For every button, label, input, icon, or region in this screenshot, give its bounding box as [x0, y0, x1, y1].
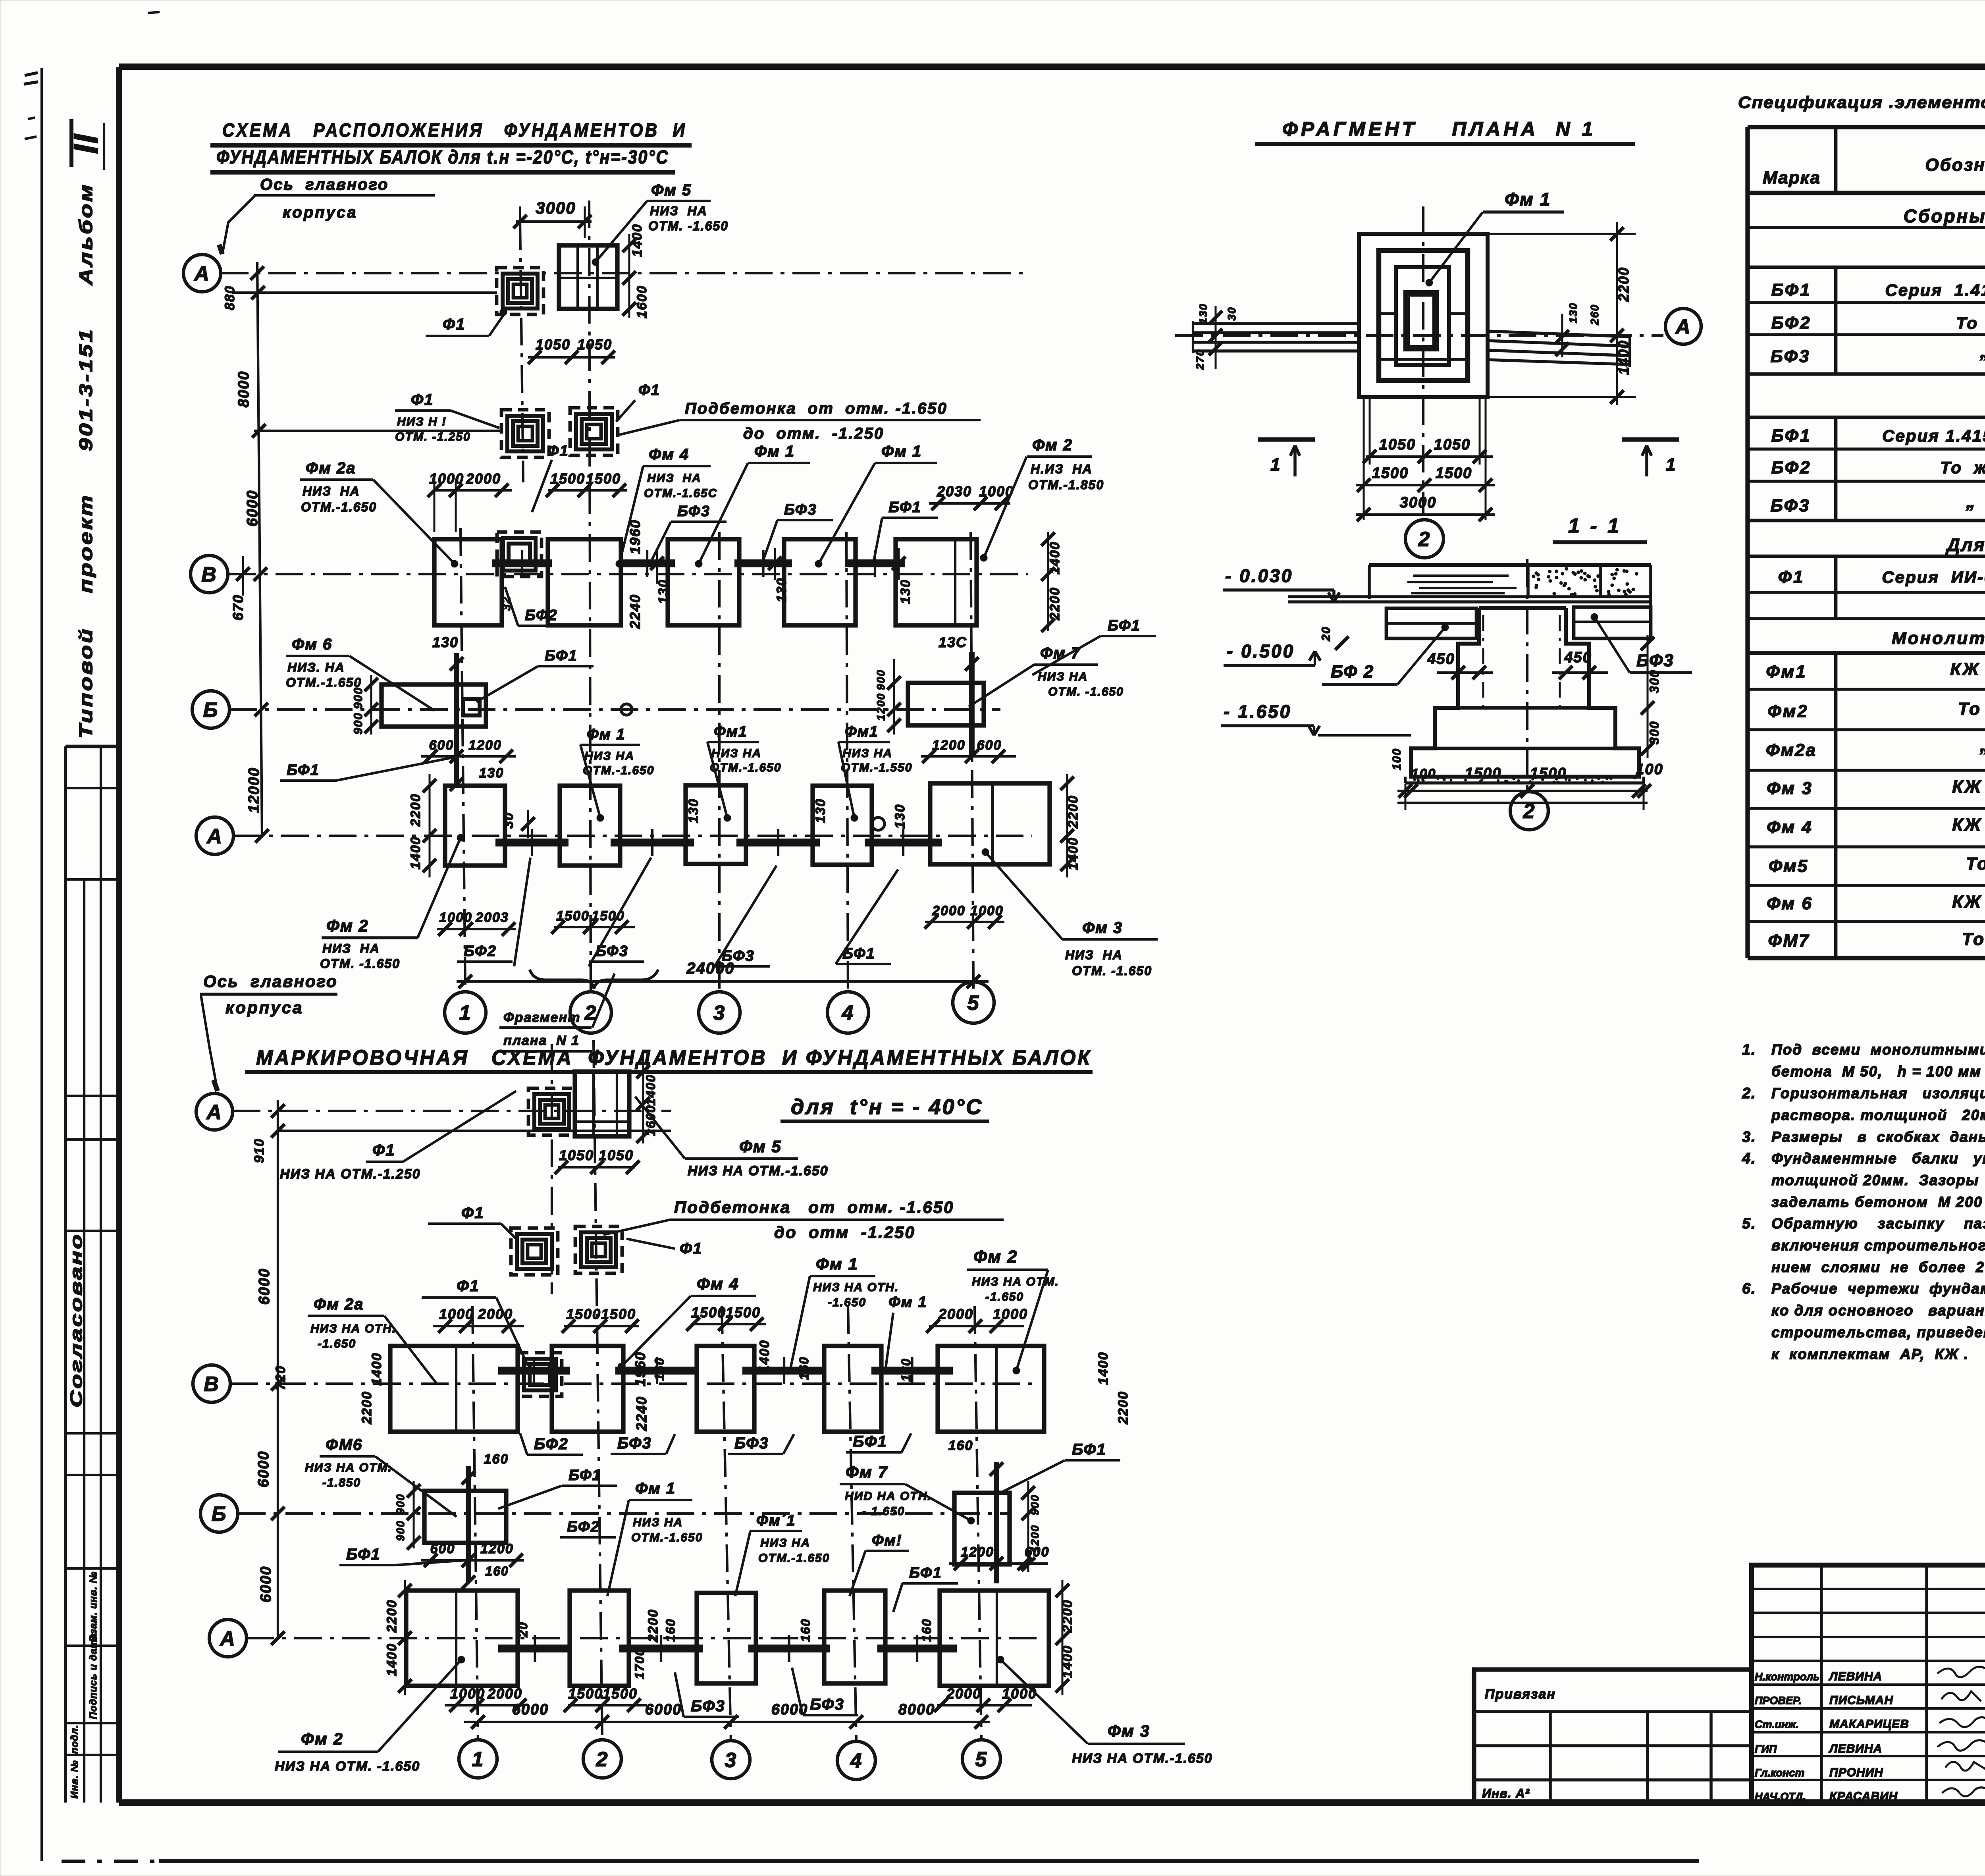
foundation Фм3 rect row A (upper): [930, 783, 1050, 864]
svg-text:Фм 2: Фм 2: [1032, 436, 1073, 454]
svg-text:Марка: Марка: [1763, 168, 1821, 187]
svg-text:1400: 1400: [1615, 340, 1632, 375]
svg-text:Фм2а: Фм2а: [1766, 740, 1817, 760]
svg-text:160: 160: [797, 1356, 811, 1380]
svg-text:ПРОНИН: ПРОНИН: [1829, 1766, 1883, 1779]
fragment center vertical axis: [1422, 206, 1424, 516]
svg-text:до отм. -1.250: до отм. -1.250: [743, 425, 884, 442]
svg-text:включения строительного мусор: включения строительного мусора и растите…: [1771, 1237, 1985, 1253]
svg-text:30: 30: [1226, 307, 1238, 320]
svg-text:160: 160: [919, 1618, 934, 1642]
label Фм6 (lower): [305, 1436, 457, 1517]
svg-text:Размеры в скобках даны дл: Размеры в скобках даны для t°н = - 20°C …: [1771, 1129, 1985, 1145]
foundation Фм5 rectangle (upper): [559, 245, 617, 309]
svg-text:БФ2: БФ2: [534, 1435, 569, 1453]
lower plan subtitle: для t н = -40°C: [781, 1095, 989, 1121]
axis row A2 circle: [196, 817, 233, 854]
column circle 4 (lower): [837, 1741, 875, 1780]
svg-text:Фм 6: Фм 6: [292, 636, 332, 653]
label Подбетонка (lower): [603, 1198, 1004, 1242]
svg-text:1500: 1500: [1436, 465, 1472, 482]
svg-text:НИЗ НА: НИЗ НА: [1065, 948, 1123, 962]
svg-text:Фм 1: Фм 1: [888, 1294, 927, 1311]
svg-text:Фм 1: Фм 1: [587, 726, 625, 743]
foundation Фм5 rect (lower): [575, 1072, 629, 1136]
svg-text:3: 3: [713, 1002, 726, 1025]
section label БФ2: [1322, 624, 1449, 684]
foundation Фм1 rect row B (lower) #2: [824, 1346, 881, 1432]
svg-text:160: 160: [484, 1452, 509, 1467]
svg-text:ОТМ.-1.650: ОТМ.-1.650: [758, 1552, 830, 1565]
svg-text:БФ3: БФ3: [1636, 651, 1674, 670]
svg-text:1400: 1400: [408, 836, 423, 870]
dims 1200 600 below Фм7 (upper): [921, 738, 1016, 763]
svg-text:670: 670: [230, 594, 246, 621]
column axis 5 line (lower): [975, 1306, 981, 1740]
svg-text:Серия ИИ-04-1 вып. 6: Серия ИИ-04-1 вып. 6: [1882, 568, 1985, 586]
axis row A2 lower circle: [209, 1620, 247, 1657]
labels БФ2 БФ3 БФ3 БФ1 row B (lower): [520, 1433, 911, 1455]
svg-text:То же: То же: [1956, 314, 1985, 332]
svg-text:БФ3: БФ3: [617, 1434, 652, 1452]
section bottom dims 100 1500 1500 100: [1390, 748, 1663, 810]
svg-text:ОТМ. -1.650: ОТМ. -1.650: [1072, 964, 1152, 978]
rotated dim 130 row B #2 (upper): [768, 548, 789, 602]
dim 160 Фм7 (lower): [948, 1438, 1003, 1476]
svg-text:2030: 2030: [937, 483, 972, 499]
svg-text:- 1.650: - 1.650: [1224, 701, 1291, 722]
axis row Б lower line: [238, 1512, 1008, 1515]
svg-text:То же: То же: [1940, 458, 1985, 477]
svg-text:НИЗ НА: НИЗ НА: [1038, 670, 1088, 683]
svg-text:130: 130: [432, 634, 459, 650]
svg-text:1500: 1500: [586, 470, 621, 487]
svg-text:1050: 1050: [1434, 436, 1471, 453]
svg-text:6000: 6000: [256, 1268, 273, 1305]
svg-text:1 - 1: 1 - 1: [1568, 515, 1621, 538]
svg-text:2240: 2240: [627, 594, 643, 629]
svg-text:2200: 2200: [1615, 267, 1632, 302]
svg-text:3000: 3000: [1400, 494, 1437, 511]
svg-text:Фм 1: Фм 1: [816, 1255, 858, 1273]
svg-text:Фм 4: Фм 4: [649, 446, 689, 463]
svg-text:Ось главного: Ось главного: [260, 176, 389, 193]
svg-text:1000: 1000: [993, 1306, 1028, 1322]
svg-text:Монолитные железобетонные: Монолитные железобетонные констр.укции: [1892, 629, 1985, 648]
beam БФ2 row A (upper): [495, 839, 569, 846]
svg-text:1000: 1000: [439, 1306, 474, 1322]
fragment label Фм1: [1426, 189, 1564, 286]
rotated dim 130 row B #3 (upper): [892, 548, 913, 604]
svg-text:НИЗ НА ОТМ.: НИЗ НА ОТМ.: [305, 1461, 392, 1474]
svg-text:Сборные железобетонные ко: Сборные железобетонные конструкции: [1904, 206, 1985, 226]
label Фм2 row A (lower): [275, 1656, 465, 1774]
svg-text:300: 300: [1647, 669, 1661, 693]
axis row A upper parallel line: [232, 291, 497, 294]
svg-text:2200: 2200: [1116, 1391, 1131, 1425]
label Фм2 (upper): [980, 436, 1104, 561]
svg-text:160: 160: [652, 1357, 667, 1380]
axis row A2 line: [233, 835, 1032, 837]
foundation Фм4 rect row B (upper): [548, 539, 621, 625]
foundation Фм1 rect row B (upper) #1: [668, 539, 739, 625]
Фм7 side dims 1200 900 (lower): [1021, 1481, 1041, 1572]
svg-text:до отм -1.250: до отм -1.250: [774, 1223, 915, 1242]
label Фм5 (lower): [635, 1097, 829, 1178]
foundation Ф1 square on axis1 row B (upper): [497, 532, 542, 576]
row A dims 2000 1000 (upper): [925, 903, 1004, 929]
label Фм1 row B #2 (upper): [815, 443, 937, 567]
svg-text:2000: 2000: [938, 1306, 973, 1322]
rotated dims near axis2 (upper row B): [500, 519, 671, 629]
svg-text:БФ1: БФ1: [1072, 1441, 1106, 1458]
svg-text:1500: 1500: [601, 1306, 636, 1322]
rotated dims row B (lower): [359, 1340, 1131, 1431]
svg-text:30: 30: [501, 812, 516, 829]
svg-text:1: 1: [459, 1002, 472, 1025]
row A right dim line (lower): [1056, 1580, 1069, 1695]
fragment right beam: [1488, 331, 1630, 367]
rotated dims row A (lower): [384, 1599, 1075, 1679]
svg-text:2: 2: [1418, 528, 1431, 551]
svg-text:- 1.650: - 1.650: [862, 1505, 905, 1518]
svg-text:Фундаментные балки укладыв: Фундаментные балки укладывать на цементн…: [1771, 1150, 1985, 1166]
beam БФ3 row B #2 (lower): [742, 1367, 826, 1375]
axis row A upper line: [221, 272, 1028, 274]
svg-text:900: 900: [1029, 1494, 1041, 1515]
svg-text:2: 2: [1523, 800, 1536, 823]
svg-text:Ф1: Ф1: [547, 443, 569, 459]
svg-text:5: 5: [975, 1748, 988, 1771]
svg-text:В: В: [204, 1373, 220, 1396]
svg-text:1500: 1500: [556, 908, 590, 924]
label Ф1 mid-right (lower): [626, 1239, 702, 1257]
svg-text:4: 4: [850, 1750, 863, 1773]
svg-text:1500: 1500: [603, 1685, 638, 1702]
foundation rect row A axis3 (upper): [686, 785, 746, 864]
label Фм2 row A (upper): [320, 834, 464, 971]
section dim 450 left: [1427, 651, 1493, 679]
section floor hatch lines: [1407, 576, 1517, 593]
axis row Б line: [229, 708, 1000, 711]
section title 1-1: [1553, 515, 1647, 542]
svg-text:3: 3: [725, 1749, 737, 1772]
svg-text:ФРАГМЕНТ ПЛАНА N 1: ФРАГМЕНТ ПЛАНА N 1: [1282, 118, 1596, 140]
svg-text:6000: 6000: [255, 1451, 272, 1488]
section level mark -0.500: [1224, 641, 1320, 665]
foundation Ф1 square top (lower): [528, 1088, 575, 1135]
spec row БФ2 (-40): [1771, 458, 1985, 477]
svg-text:То же: То же: [1966, 854, 1985, 873]
sidebar stamp table: [66, 746, 119, 1803]
label БФ1 right row Б (upper): [1032, 617, 1156, 675]
svg-text:Фм 1: Фм 1: [1505, 189, 1551, 210]
lower rowB dims 1500 1500 #1: [562, 1306, 639, 1333]
svg-text:2003: 2003: [475, 910, 509, 925]
svg-text:ОТМ.-1.650: ОТМ.-1.650: [286, 675, 362, 690]
svg-text:Фм 5: Фм 5: [651, 181, 692, 199]
svg-text:8000: 8000: [235, 371, 252, 408]
axis row B line: [228, 573, 1028, 575]
svg-text:БФ3: БФ3: [1771, 496, 1811, 515]
label Фм1 row Б #2 (lower): [735, 1512, 830, 1596]
svg-text:32: 32: [500, 596, 513, 611]
section beam БФ2 cross: [1386, 608, 1476, 638]
svg-text:2000: 2000: [946, 1685, 981, 1702]
label: Ось главного корпуса (upper): [219, 176, 435, 254]
upper plan title line 2: [210, 147, 675, 172]
section right dim chain 300 300: [1641, 635, 1661, 758]
svg-text:- 0.500: - 0.500: [1227, 641, 1295, 661]
parallel line below axis A lower: [278, 1130, 671, 1132]
svg-text:1: 1: [1270, 455, 1281, 474]
label БФ3 row B #2 (upper): [762, 501, 833, 563]
svg-text:НИЗ НА: НИЗ НА: [647, 472, 701, 485]
Фм5 right dim chain (upper): [622, 224, 649, 318]
label БФ1 row Б (lower): [498, 1467, 617, 1509]
svg-text:ФМ7: ФМ7: [1768, 931, 1810, 951]
section center axis: [1526, 559, 1528, 792]
label Подбетонка (upper): [619, 400, 981, 442]
fragment inner detail lines: [1379, 314, 1468, 359]
svg-text:-1.650: -1.650: [318, 1337, 356, 1350]
axis row B lower line: [230, 1382, 1032, 1385]
sidebar outer edge line: [40, 68, 43, 1861]
svg-text:5.: 5.: [1742, 1215, 1756, 1232]
svg-text:Ось главного: Ось главного: [203, 972, 338, 991]
foundation Фм2 rect row A (upper): [445, 786, 505, 866]
svg-text:1200: 1200: [961, 1544, 994, 1560]
spec row Фм5: [1769, 852, 1985, 876]
foundation rect row A axis2 (lower): [570, 1591, 629, 1686]
svg-text:-1.650: -1.650: [828, 1296, 866, 1309]
section slab underside lines: [1288, 597, 1651, 602]
svg-text:КЖ - 5: КЖ - 5: [1950, 659, 1985, 679]
label Фм1 trio #3 (upper): [838, 723, 912, 821]
dims 600 1200 below Фм6 (upper): [421, 738, 516, 791]
svg-text:ОТМ. -1.650: ОТМ. -1.650: [1048, 685, 1124, 698]
svg-text:НИЗ НА: НИЗ НА: [760, 1537, 810, 1550]
svg-text:600: 600: [429, 738, 454, 753]
foundation Фм7 rect row Б (lower): [954, 1462, 1010, 1583]
spec row Фм3: [1767, 775, 1985, 798]
svg-text:1200: 1200: [932, 738, 966, 753]
row A dims 1500 1500 (upper): [551, 908, 635, 934]
svg-text:Спецификация .элементов к ма: Спецификация .элементов к маркировочным …: [1738, 93, 1985, 112]
title block signature scribbles: [1937, 1667, 1985, 1796]
beam БФ2 row B (upper): [492, 559, 552, 567]
svg-text:КЖ - 7: КЖ - 7: [1952, 815, 1985, 835]
beam БФ3 row A #1 (lower): [619, 1645, 703, 1652]
svg-text:БФ3: БФ3: [810, 1696, 844, 1713]
row A left dim line (lower): [398, 1580, 412, 1695]
label Ф1 mid-left (lower): [428, 1204, 516, 1239]
svg-text:ОТМ.-1.650: ОТМ.-1.650: [710, 761, 781, 774]
svg-text:ЛЕВИНА: ЛЕВИНА: [1829, 1742, 1882, 1755]
beam БФ2 row B (lower): [498, 1367, 570, 1375]
axis row A lower circle: [196, 1093, 233, 1130]
svg-text:13С: 13С: [939, 634, 967, 650]
svg-text:ФУНДАМЕНТНЫХ БАЛОК для t.н =-2: ФУНДАМЕНТНЫХ БАЛОК для t.н =-20°C, t°н=-…: [216, 147, 669, 168]
svg-text:БФ1: БФ1: [909, 1565, 942, 1581]
label Фм1 trio #2 (upper): [707, 723, 781, 821]
svg-text:НИЗ НА: НИЗ НА: [633, 1516, 683, 1529]
section floor slab top: [1369, 565, 1651, 639]
svg-text:КЖ - 6: КЖ - 6: [1952, 777, 1985, 796]
svg-text:130: 130: [774, 578, 789, 603]
svg-text:2000: 2000: [478, 1306, 513, 1322]
svg-text:2: 2: [584, 1002, 597, 1025]
beam БФ2 row A (lower): [498, 1645, 572, 1652]
svg-text:1700: 1700: [632, 1648, 647, 1679]
label Фрагмент плана N1 (upper): [499, 974, 615, 1051]
spec table header text: [1763, 135, 1985, 189]
svg-text:Фм 6: Фм 6: [1767, 894, 1813, 913]
svg-text:600: 600: [977, 738, 1002, 753]
fragment axis A circle: [1665, 308, 1701, 344]
svg-text:ПРОВЕР.: ПРОВЕР.: [1755, 1695, 1802, 1706]
fragment brace (upper): [530, 970, 658, 989]
beam БФ3 row A #2 (upper): [736, 839, 820, 846]
svg-text:Взам. инв. №: Взам. инв. №: [88, 1571, 99, 1642]
svg-text:Фм 2а: Фм 2а: [314, 1296, 364, 1313]
svg-text:1500: 1500: [1372, 465, 1409, 482]
label Фм4 (upper): [616, 446, 717, 567]
svg-text:Серия 1.415 -1 вып.1: Серия 1.415 -1 вып.1: [1885, 281, 1985, 299]
svg-text:12000: 12000: [246, 767, 262, 813]
svg-text:МАКАРИЦЕВ: МАКАРИЦЕВ: [1829, 1718, 1909, 1731]
svg-text:6.: 6.: [1742, 1280, 1756, 1297]
svg-text:БФ2: БФ2: [464, 943, 497, 960]
fragment dim 3000: [1356, 494, 1495, 521]
dims 1200 600 (lower row Б right): [949, 1544, 1049, 1570]
foundation rect row A axis2 (upper): [560, 786, 620, 866]
svg-text:Подбетонка от отм. -1.650: Подбетонка от отм. -1.650: [685, 400, 948, 417]
svg-text:к комплектам АР, КЖ .: к комплектам АР, КЖ .: [1771, 1346, 1969, 1362]
column circle 3 (lower): [712, 1741, 750, 1779]
svg-text:Н.ИЗ НА: Н.ИЗ НА: [1031, 462, 1093, 476]
row A dims below (lower): [445, 1685, 1037, 1712]
foundation Ф1 square row B (lower): [518, 1353, 562, 1396]
svg-text:НИЗ НА: НИЗ НА: [650, 204, 707, 218]
svg-text:СХЕМА РАСПОЛОЖЕНИЯ ФУНДАМЕ: СХЕМА РАСПОЛОЖЕНИЯ ФУНДАМЕНТОВ И: [222, 120, 687, 141]
label Фм4 (lower): [618, 1274, 756, 1370]
column axis 2 line (upper): [589, 201, 591, 992]
section level mark -0.030: [1223, 565, 1339, 602]
dim 1050 1050 (lower): [555, 1147, 640, 1174]
svg-text:БФ1: БФ1: [346, 1546, 381, 1563]
spec row Фм2а: [1766, 735, 1985, 760]
axis row Б circle: [192, 691, 229, 728]
svg-text:Фм 2: Фм 2: [301, 1729, 343, 1748]
beam БФ1 row A (lower): [877, 1645, 957, 1652]
svg-text:160: 160: [948, 1438, 973, 1453]
svg-text:3000: 3000: [536, 199, 576, 217]
row A dims 1000 2000 (upper): [437, 910, 516, 936]
svg-text:для t°н = - 40°C: для t°н = - 40°C: [791, 1095, 983, 1119]
sidebar corner scribble: [24, 73, 38, 139]
svg-text:БФ3: БФ3: [691, 1697, 725, 1715]
section beam БФ3 cross: [1574, 607, 1651, 638]
svg-text:600: 600: [430, 1541, 455, 1556]
beam БФ1 row A (upper): [865, 839, 942, 846]
foundation Фм7 rect row Б (upper): [908, 652, 984, 755]
lower rowB dims 1500 1500 #2: [686, 1304, 766, 1331]
svg-text:2200: 2200: [384, 1599, 399, 1633]
foundation Ф1 square b (upper mid): [570, 408, 618, 455]
foundation Фм6 rect row Б (lower): [424, 1466, 506, 1582]
Фм6 side dims 900 900 (lower): [394, 1481, 420, 1550]
svg-text:Инв. № подл.: Инв. № подл.: [69, 1725, 80, 1799]
svg-text:130: 130: [898, 579, 913, 604]
small circle marker row A (upper): [872, 817, 885, 830]
fragment column circle 2: [1405, 520, 1443, 558]
foundation rect row A axis3 (lower): [697, 1593, 756, 1683]
svg-text:1500: 1500: [568, 1685, 603, 1702]
svg-text:160: 160: [798, 1618, 813, 1642]
Фм6 left dims 900 900 (upper): [352, 675, 378, 735]
svg-text:БФ1: БФ1: [853, 1433, 887, 1450]
svg-text:А: А: [206, 1101, 222, 1124]
svg-text:450: 450: [1427, 651, 1455, 667]
svg-text:Ф1: Ф1: [1778, 567, 1805, 587]
title block signature texts: [1755, 1670, 1909, 1803]
column axis 4 line (upper): [846, 532, 848, 992]
svg-text:Горизонтальная изоляция ст: Горизонтальная изоляция стен выполняется…: [1771, 1085, 1985, 1101]
svg-text:900: 900: [352, 687, 365, 709]
axis row Б lower circle: [200, 1495, 238, 1532]
notes block: [1742, 1041, 1985, 1362]
svg-text:Фм´1: Фм´1: [756, 1512, 796, 1529]
foundation Фм2 rect row B (upper): [896, 539, 977, 625]
svg-text:- 0.030: - 0.030: [1225, 565, 1293, 586]
column axis 1 line (lower): [472, 1306, 478, 1740]
svg-text:1400: 1400: [1066, 837, 1081, 870]
vertical through top square (lower): [551, 1044, 553, 1294]
fragment foundation step rect: [1379, 251, 1468, 380]
svg-text:1400: 1400: [630, 224, 645, 257]
svg-text:6000: 6000: [258, 1566, 274, 1603]
foundation Ф1 square (axis A top): [497, 268, 543, 314]
fragment right dim chain 2200 1400: [1488, 222, 1636, 405]
svg-text:1600: 1600: [634, 285, 649, 318]
vertical line through top foundation (upper): [520, 222, 523, 482]
svg-text:раствора. толщиной 20мм со: раствора. толщиной 20мм состава 1:2 на о…: [1771, 1107, 1985, 1123]
svg-text:600: 600: [1025, 1544, 1050, 1560]
svg-text:Фм 2: Фм 2: [973, 1247, 1018, 1267]
label Фм1 row Б #3 (lower): [850, 1532, 909, 1596]
column circle 4 (upper): [827, 992, 869, 1033]
fragment section mark 1 left: [1258, 440, 1315, 476]
svg-text:ПИСЬМАН: ПИСЬМАН: [1829, 1694, 1893, 1707]
svg-text:Фм5: Фм5: [1769, 856, 1808, 876]
label Фм1 (lower rowB) #2: [882, 1294, 927, 1374]
section label БФ3: [1591, 613, 1692, 673]
svg-text:БФ1: БФ1: [1771, 280, 1812, 300]
svg-text:строительства, приведенными: строительства, приведенными в разделе 1,…: [1771, 1324, 1985, 1340]
svg-text:БФ2: БФ2: [525, 607, 558, 624]
svg-text:ФМ6: ФМ6: [326, 1436, 362, 1454]
label БФ1 #2 row Б (lower): [893, 1565, 958, 1612]
svg-text:БФ2: БФ2: [567, 1519, 600, 1535]
svg-text:КРАСАВИН: КРАСАВИН: [1829, 1790, 1898, 1803]
svg-text:2200: 2200: [359, 1391, 374, 1425]
lower plan left dimension chain: [252, 1100, 288, 1645]
svg-text:Фм1: Фм1: [714, 723, 748, 740]
small circle marker on axis Б (upper): [621, 704, 632, 715]
upper plan left dimension chain: [222, 262, 269, 843]
rotated dim 30 row A (upper): [501, 810, 535, 838]
